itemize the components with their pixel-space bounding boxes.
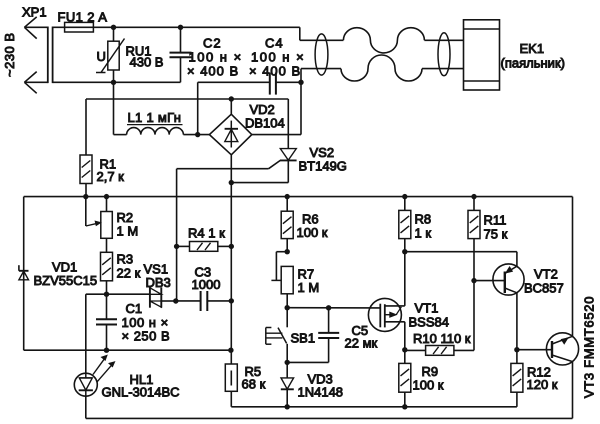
svg-text:BT149G: BT149G: [299, 159, 347, 174]
svg-text:C2: C2: [203, 36, 222, 51]
svg-text:1 к: 1 к: [415, 226, 432, 241]
svg-text:1 М: 1 М: [298, 280, 320, 295]
svg-text:C1: C1: [126, 301, 143, 316]
svg-text:VT2: VT2: [534, 267, 558, 282]
svg-text:DB104: DB104: [245, 116, 285, 131]
svg-text:100 к: 100 к: [413, 378, 444, 393]
svg-text:100 к: 100 к: [297, 225, 328, 240]
svg-text:R10 110 к: R10 110 к: [413, 331, 471, 346]
svg-text:100 н ×: 100 н ×: [251, 50, 305, 65]
svg-text:1000: 1000: [192, 277, 221, 292]
svg-text:U: U: [97, 49, 106, 64]
svg-text:2,7 к: 2,7 к: [97, 169, 125, 184]
svg-text:SB1: SB1: [291, 331, 316, 346]
svg-text:× 400 В: × 400 В: [187, 64, 239, 79]
svg-text:VT3 FMMT6520: VT3 FMMT6520: [582, 296, 597, 398]
svg-text:BZV55C15: BZV55C15: [34, 273, 98, 288]
svg-text:22 мк: 22 мк: [345, 336, 378, 351]
svg-text:× 400 В: × 400 В: [249, 64, 301, 79]
svg-text:R4 1 к: R4 1 к: [188, 226, 225, 241]
svg-text:EK1: EK1: [520, 41, 545, 56]
svg-text:~230 В: ~230 В: [2, 32, 17, 77]
svg-text:120 к: 120 к: [527, 377, 558, 392]
svg-text:R3: R3: [117, 252, 134, 267]
svg-text:R11: R11: [484, 213, 507, 228]
svg-text:75 к: 75 к: [484, 227, 508, 242]
svg-text:FU1 2 A: FU1 2 A: [58, 10, 108, 25]
svg-text:GNL-3014BC: GNL-3014BC: [102, 385, 180, 400]
svg-text:100 н ×: 100 н ×: [189, 50, 243, 65]
svg-text:1N4148: 1N4148: [298, 385, 344, 400]
svg-text:VT1: VT1: [415, 301, 439, 316]
svg-text:430 В: 430 В: [130, 55, 164, 70]
svg-text:L1 1 мГн: L1 1 мГн: [128, 110, 182, 125]
svg-text:× 250 В: × 250 В: [122, 329, 171, 344]
svg-text:XP1: XP1: [22, 5, 47, 20]
svg-text:C4: C4: [265, 36, 284, 51]
svg-text:1 М: 1 М: [117, 224, 139, 239]
svg-text:(паяльник): (паяльник): [501, 56, 565, 71]
svg-text:68 к: 68 к: [242, 377, 266, 392]
svg-text:22 к: 22 к: [117, 266, 141, 281]
svg-text:R8: R8: [415, 212, 432, 227]
svg-text:BC857: BC857: [524, 281, 564, 296]
svg-text:BSS84: BSS84: [409, 315, 449, 330]
svg-text:DB3: DB3: [146, 275, 171, 290]
